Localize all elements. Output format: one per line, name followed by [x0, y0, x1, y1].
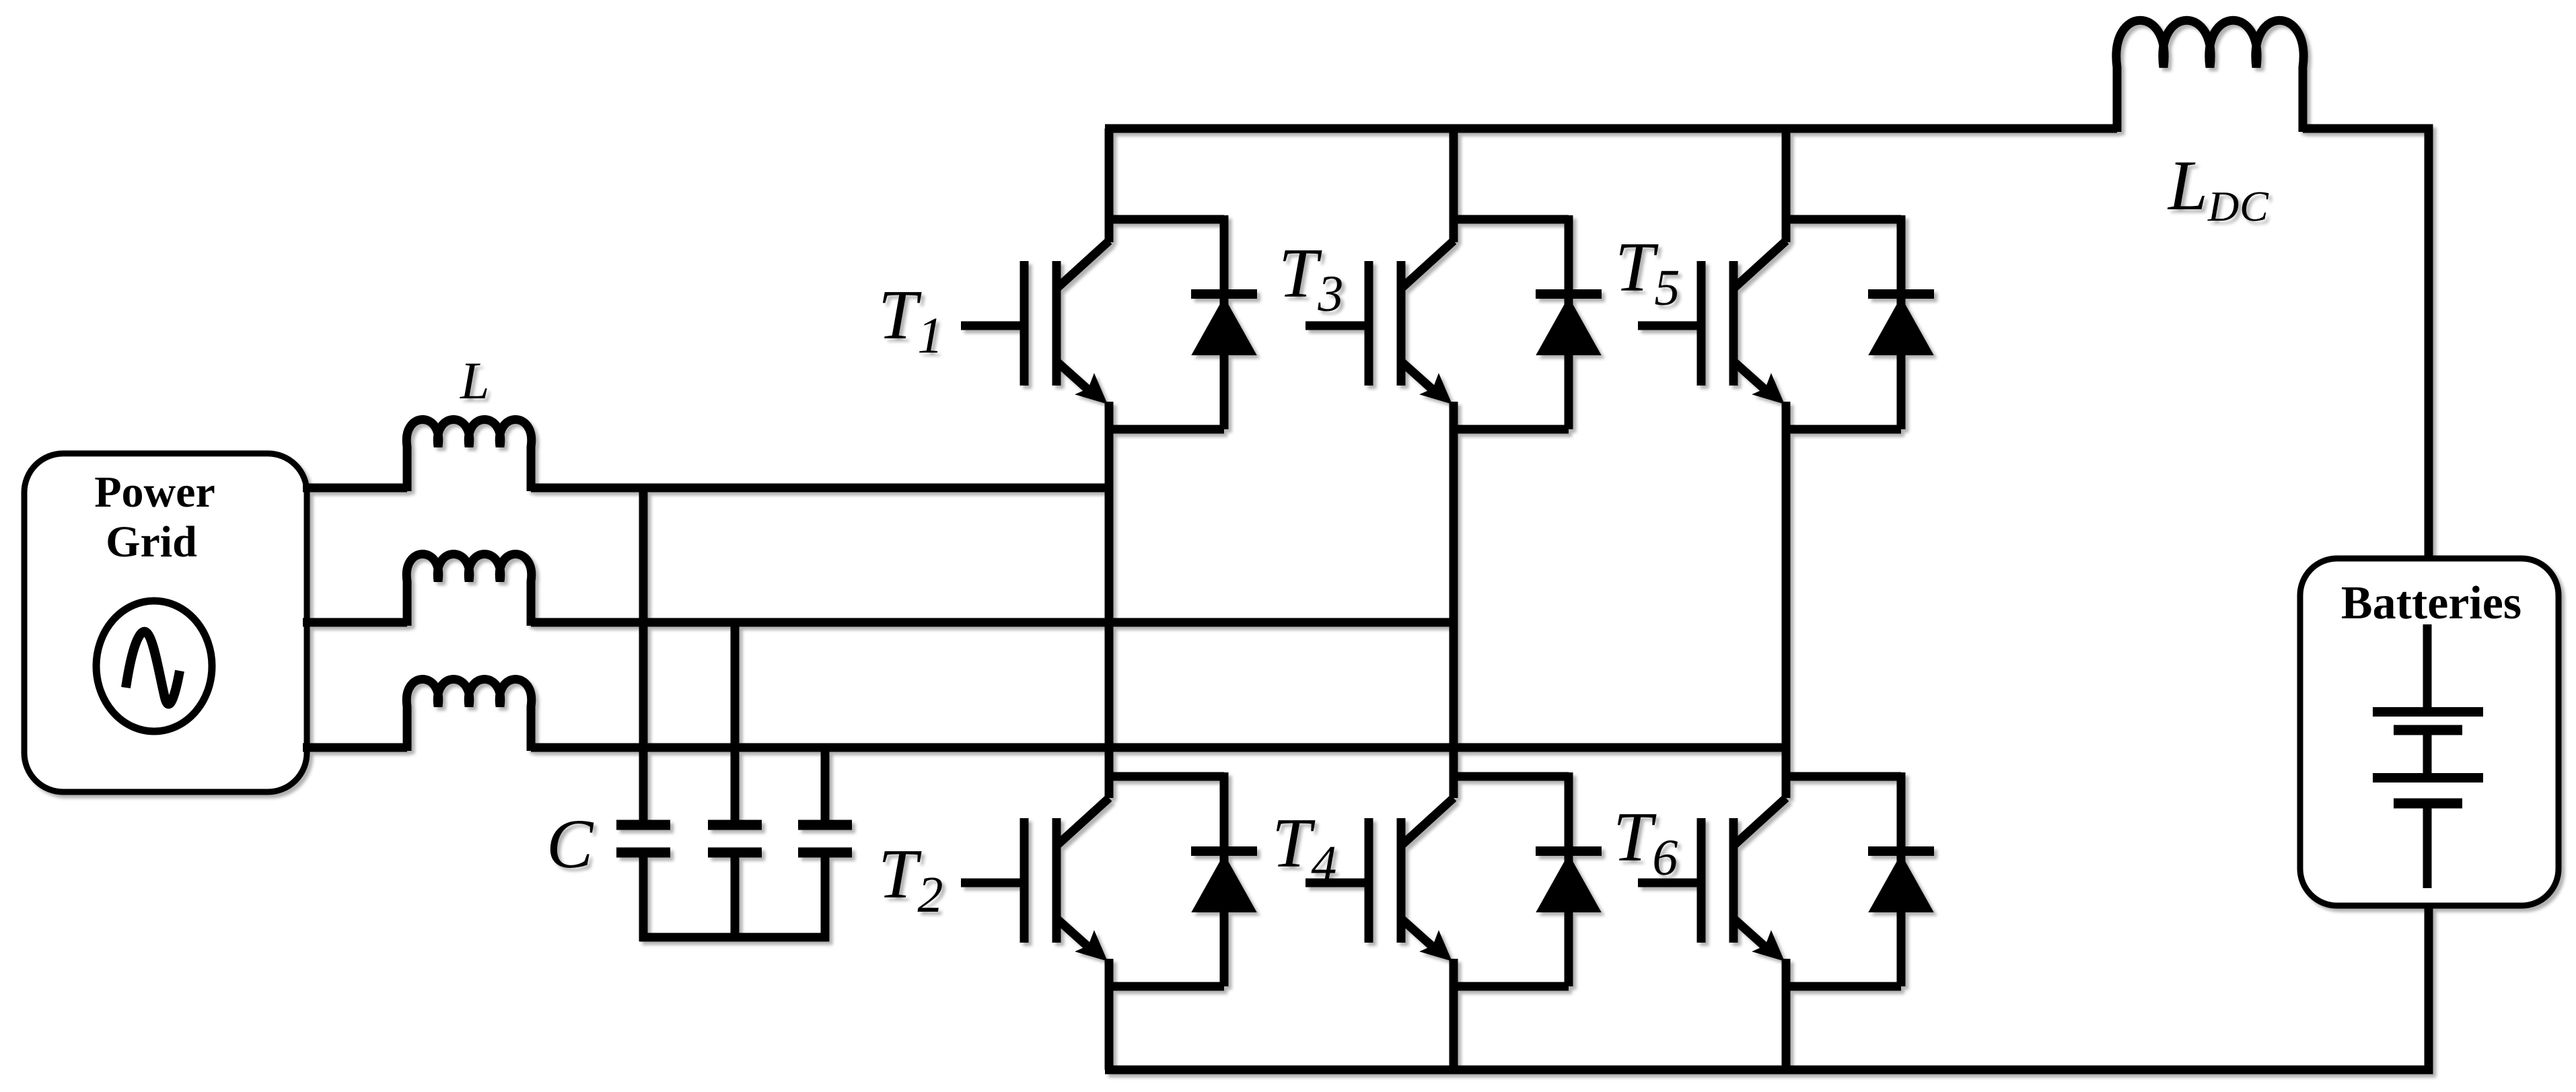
- wire leg 2 midpoint vertical (node phase B): [1450, 429, 1458, 798]
- wire top DC rail: [1105, 124, 2117, 133]
- capacitor common bus wire: [639, 933, 829, 942]
- wire emitter T2 to bottom rail: [1105, 986, 1114, 1070]
- wire phase A from grid to inductor: [303, 484, 407, 493]
- transistor T6 (IGBT): [1638, 776, 1901, 986]
- svg-text:C: C: [546, 805, 594, 883]
- wire emitter T6 to bottom rail: [1782, 986, 1791, 1070]
- wire phase B from grid to inductor: [303, 618, 407, 627]
- freewheel diode of T2: [1191, 772, 1257, 986]
- inductor L_DC: [2116, 20, 2303, 132]
- wire phase B from inductor to leg 2: [531, 618, 1454, 627]
- freewheel diode of T3: [1536, 215, 1602, 429]
- transistor T5 (IGBT): [1638, 129, 1901, 429]
- wire phase A from inductor to leg 1: [531, 484, 1109, 493]
- svg-text:T2: T2: [878, 834, 943, 923]
- wire leg 3 midpoint vertical (node phase C): [1782, 429, 1791, 798]
- svg-text:T3: T3: [1279, 233, 1343, 322]
- inductor L (phase B): [406, 554, 532, 626]
- transistor T4 (IGBT): [1305, 776, 1569, 986]
- transistor T1 (IGBT): [961, 129, 1224, 429]
- freewheel diode of T1: [1191, 215, 1257, 429]
- svg-text:Grid: Grid: [106, 517, 197, 567]
- wire bottom DC rail: [1105, 902, 2429, 1070]
- AC source symbol: [96, 601, 212, 731]
- AC sine wave: [126, 632, 180, 704]
- svg-text:LDC: LDC: [2167, 146, 2269, 230]
- wire phase C from inductor to leg 3: [531, 743, 1786, 752]
- transistor T2 (IGBT): [961, 776, 1224, 986]
- svg-text:T1: T1: [878, 275, 943, 364]
- battery cells symbol: [2373, 624, 2483, 888]
- capacitor C2: [708, 622, 762, 941]
- power grid box: [24, 453, 307, 792]
- freewheel diode of T4: [1536, 772, 1602, 986]
- batteries box: [2300, 558, 2559, 906]
- wire emitter T4 to bottom rail: [1450, 986, 1458, 1070]
- svg-text:T6: T6: [1613, 797, 1678, 886]
- svg-text:T4: T4: [1272, 803, 1336, 892]
- svg-text:L: L: [460, 351, 489, 410]
- wire top rail from L_DC to right corner: [2303, 129, 2429, 562]
- wire phase C from grid to inductor: [303, 743, 407, 752]
- capacitor C1: [616, 488, 670, 941]
- freewheel diode of T6: [1868, 772, 1934, 986]
- svg-text:T5: T5: [1615, 227, 1680, 316]
- svg-text:Batteries: Batteries: [2341, 577, 2521, 629]
- freewheel diode of T5: [1868, 215, 1934, 429]
- capacitor C3: [798, 748, 852, 941]
- transistor T3 (IGBT): [1305, 129, 1569, 429]
- svg-text:Power: Power: [94, 468, 215, 517]
- inductor L (phase C): [406, 680, 532, 752]
- wire leg 1 midpoint vertical (node phase A): [1105, 429, 1114, 798]
- inductor L (phase A): [406, 420, 532, 492]
